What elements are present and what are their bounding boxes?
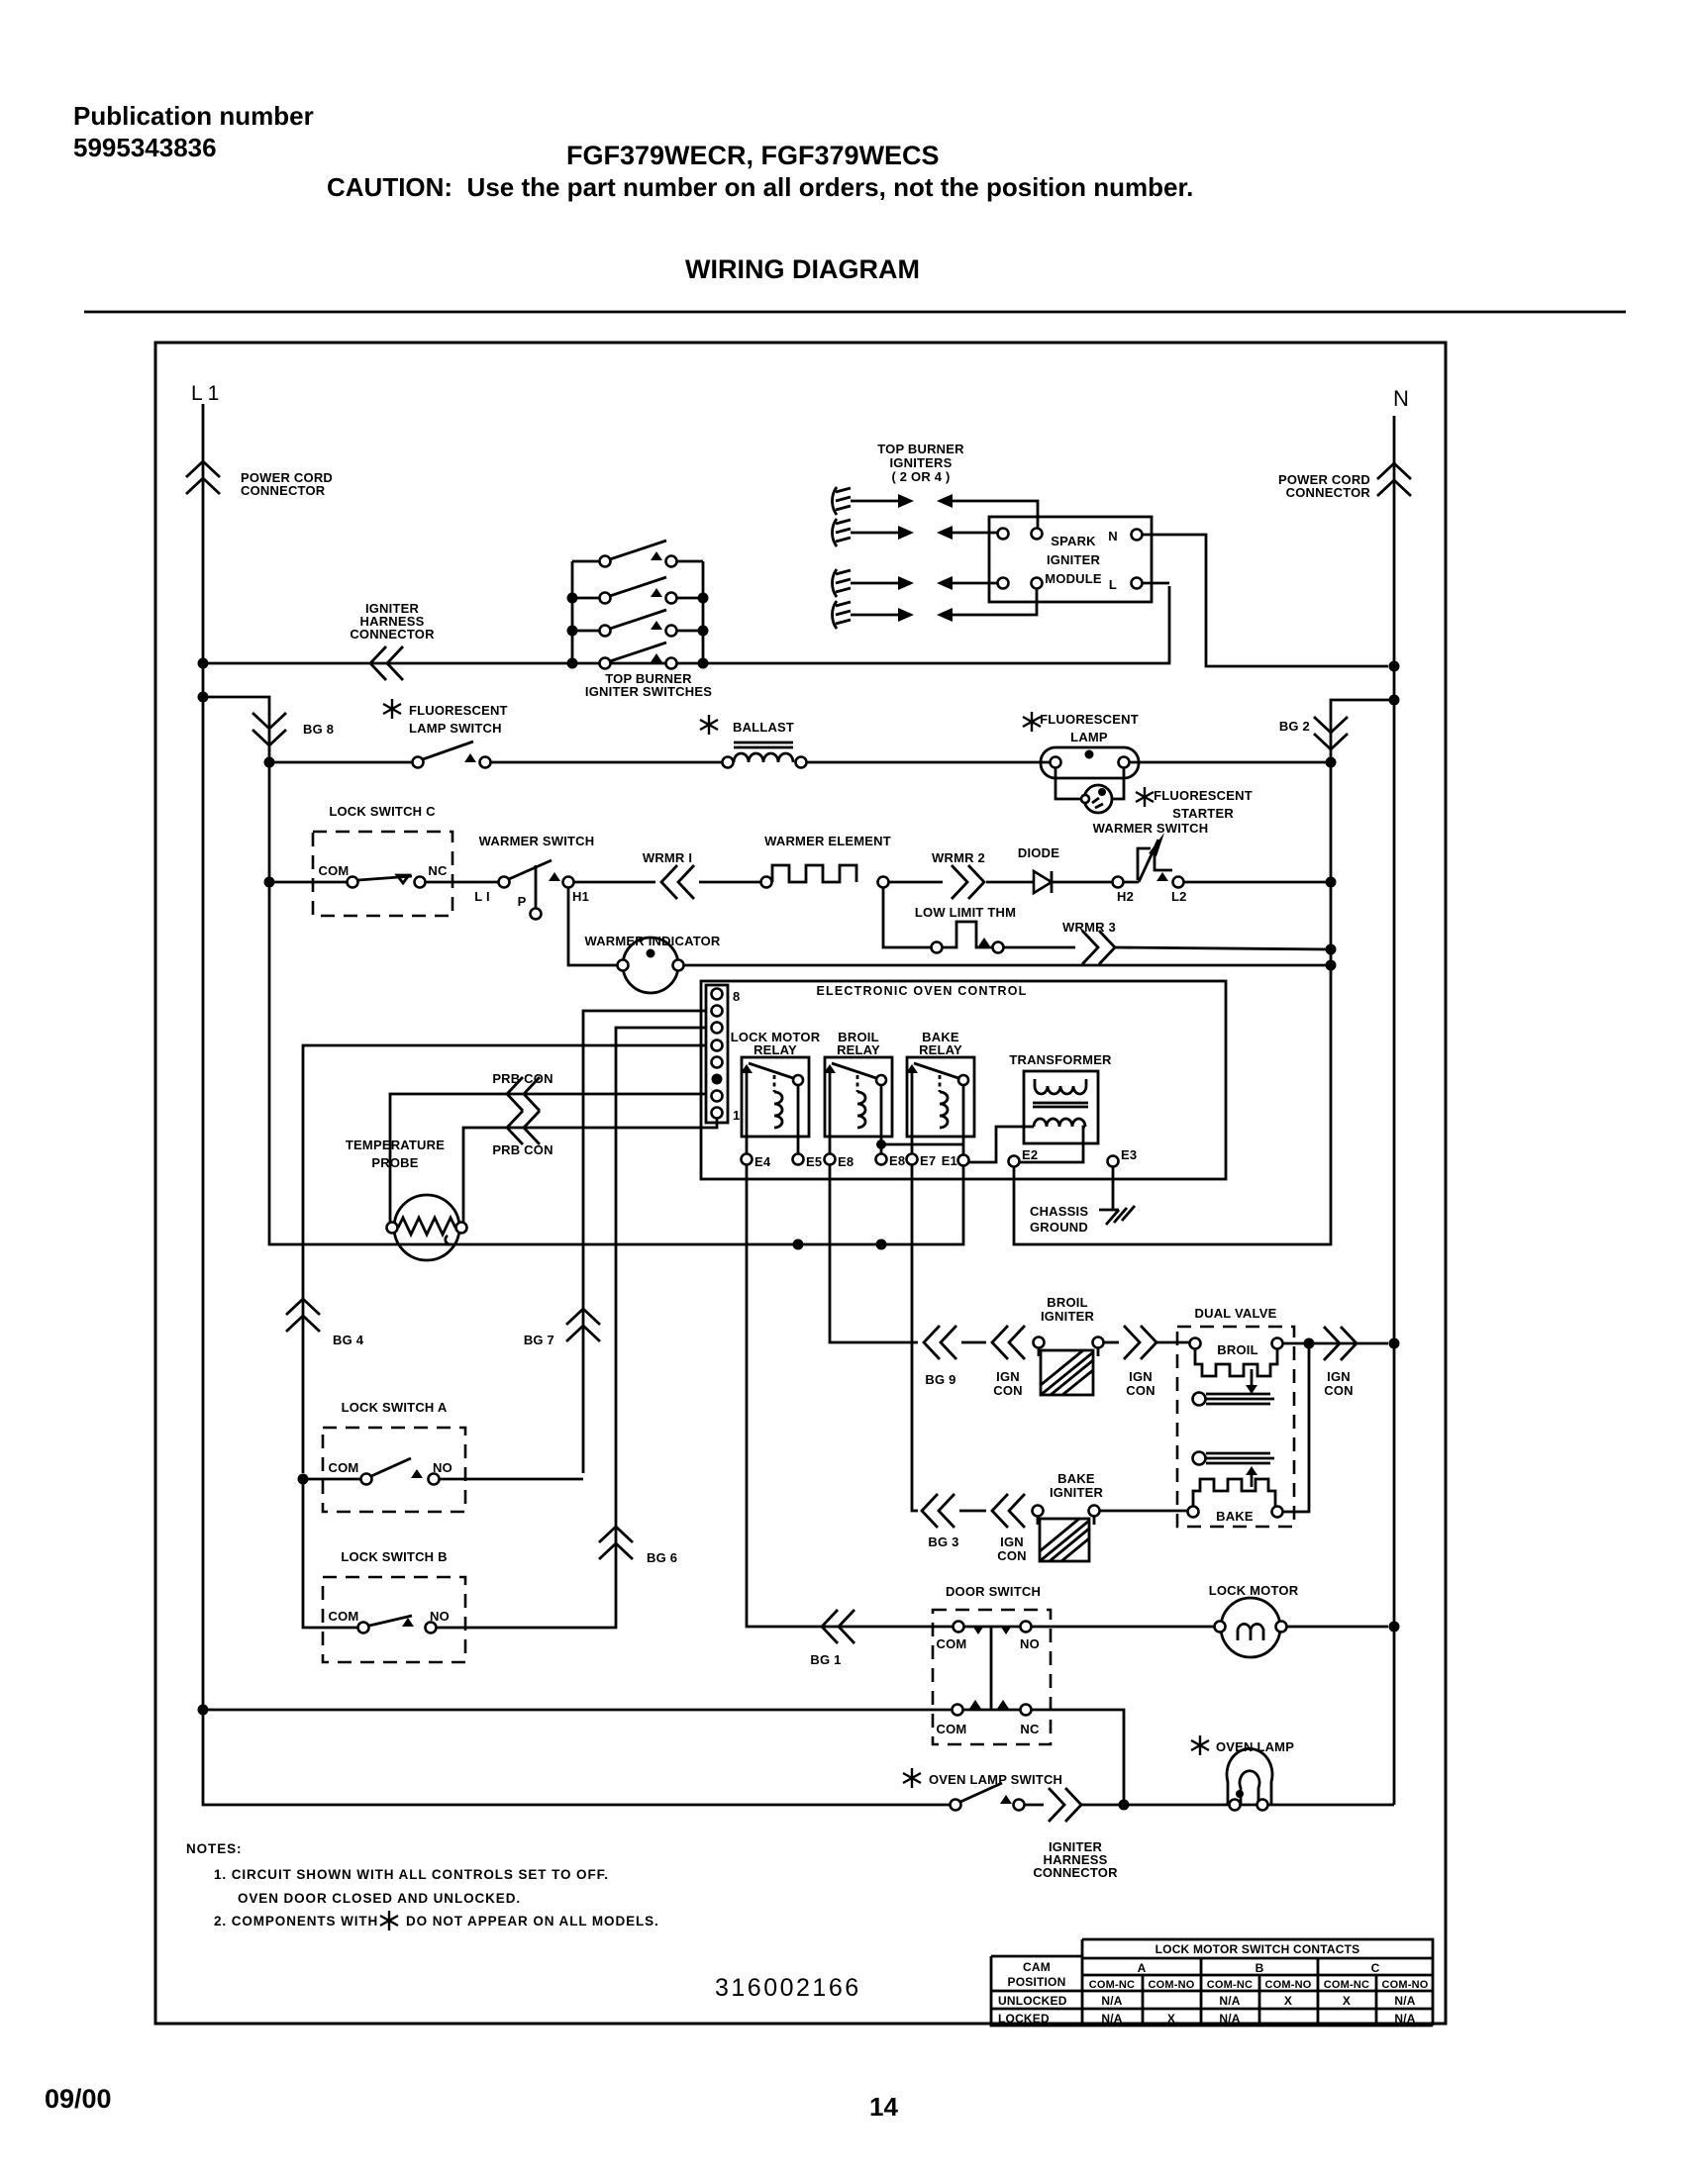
svg-text:WRMR 2: WRMR 2 xyxy=(932,850,985,865)
svg-text:E5: E5 xyxy=(806,1154,822,1169)
svg-text:CAM: CAM xyxy=(1023,1960,1051,1974)
svg-text:BAKE: BAKE xyxy=(1057,1471,1095,1486)
svg-text:1: 1 xyxy=(733,1108,740,1123)
svg-text:N/A: N/A xyxy=(1394,1994,1415,2008)
svg-text:COM: COM xyxy=(937,1722,967,1736)
svg-text:NOTES:: NOTES: xyxy=(186,1841,242,1856)
svg-text:BG 1: BG 1 xyxy=(810,1652,841,1667)
svg-text:IGN: IGN xyxy=(1129,1369,1153,1384)
svg-text:BG 7: BG 7 xyxy=(524,1333,554,1347)
svg-text:X: X xyxy=(1284,1994,1292,2008)
svg-text:09/00: 09/00 xyxy=(45,2084,112,2114)
svg-text:PROBE: PROBE xyxy=(371,1155,418,1170)
svg-text:COM-NO: COM-NO xyxy=(1264,1979,1311,1991)
svg-text:PRB CON: PRB CON xyxy=(492,1142,553,1157)
svg-text:LOCK MOTOR: LOCK MOTOR xyxy=(1209,1583,1299,1598)
svg-text:B: B xyxy=(1256,1961,1264,1975)
svg-text:COM-NC: COM-NC xyxy=(1207,1979,1253,1991)
svg-text:DO NOT APPEAR ON ALL MODELS.: DO NOT APPEAR ON ALL MODELS. xyxy=(406,1914,659,1929)
svg-text:CON: CON xyxy=(1324,1383,1354,1398)
svg-text:H1: H1 xyxy=(572,889,589,904)
svg-text:H2: H2 xyxy=(1117,889,1134,904)
svg-text:BG 9: BG 9 xyxy=(925,1372,955,1387)
svg-text:LAMP: LAMP xyxy=(1070,730,1108,744)
svg-text:E2: E2 xyxy=(1022,1147,1038,1162)
svg-text:CON: CON xyxy=(993,1383,1023,1398)
svg-text:WARMER SWITCH: WARMER SWITCH xyxy=(479,834,595,848)
svg-text:WARMER ELEMENT: WARMER ELEMENT xyxy=(764,834,891,848)
svg-text:BG 2: BG 2 xyxy=(1279,719,1310,734)
svg-text:A: A xyxy=(1138,1961,1147,1975)
svg-text:14: 14 xyxy=(869,2092,898,2122)
svg-text:DUAL VALVE: DUAL VALVE xyxy=(1195,1306,1277,1321)
svg-text:BROIL: BROIL xyxy=(1047,1295,1087,1310)
svg-text:N: N xyxy=(1108,529,1118,544)
svg-text:DOOR SWITCH: DOOR SWITCH xyxy=(946,1584,1041,1599)
svg-text:IGNITERS: IGNITERS xyxy=(890,455,953,470)
svg-text:IGNITER: IGNITER xyxy=(1050,1485,1104,1500)
svg-text:IGN: IGN xyxy=(1327,1369,1351,1384)
svg-text:CONNECTOR: CONNECTOR xyxy=(1286,485,1371,500)
svg-text:BG 3: BG 3 xyxy=(928,1534,958,1549)
svg-text:C: C xyxy=(1371,1961,1380,1975)
svg-text:N/A: N/A xyxy=(1101,1994,1122,2008)
svg-text:FLUORESCENT: FLUORESCENT xyxy=(1154,788,1253,803)
svg-text:LOCK SWITCH C: LOCK SWITCH C xyxy=(329,804,436,819)
svg-text:E8: E8 xyxy=(838,1154,854,1169)
svg-text:8: 8 xyxy=(733,989,740,1004)
svg-text:IGNITER SWITCHES: IGNITER SWITCHES xyxy=(585,684,712,699)
svg-text:CON: CON xyxy=(1126,1383,1155,1398)
svg-text:NC: NC xyxy=(428,863,448,878)
svg-text:PRB CON: PRB CON xyxy=(492,1071,553,1086)
svg-text:TOP BURNER: TOP BURNER xyxy=(877,442,964,456)
svg-text:E1: E1 xyxy=(942,1153,957,1168)
svg-text:BG 4: BG 4 xyxy=(333,1333,364,1347)
svg-text:COM: COM xyxy=(329,1609,359,1624)
svg-text:N/A: N/A xyxy=(1101,2012,1122,2026)
svg-text:WARMER INDICATOR: WARMER INDICATOR xyxy=(584,934,720,948)
svg-text:CONNECTOR: CONNECTOR xyxy=(1033,1865,1118,1880)
svg-text:COM-NC: COM-NC xyxy=(1089,1979,1135,1991)
svg-text:IGN: IGN xyxy=(996,1369,1020,1384)
svg-text:COM-NO: COM-NO xyxy=(1381,1979,1428,1991)
svg-text:BROIL: BROIL xyxy=(1217,1342,1257,1357)
svg-text:FLUORESCENT: FLUORESCENT xyxy=(1040,712,1139,727)
svg-text:( 2 OR 4 ): ( 2 OR 4 ) xyxy=(891,469,950,484)
svg-text:N/A: N/A xyxy=(1219,1994,1240,2008)
svg-text:CHASSIS: CHASSIS xyxy=(1030,1204,1088,1219)
svg-text:COM-NO: COM-NO xyxy=(1148,1979,1194,1991)
svg-text:RELAY: RELAY xyxy=(754,1042,797,1057)
svg-text:COM: COM xyxy=(329,1460,359,1475)
svg-text:TEMPERATURE: TEMPERATURE xyxy=(346,1138,445,1152)
svg-text:X: X xyxy=(1343,1994,1351,2008)
svg-text:RELAY: RELAY xyxy=(919,1042,962,1057)
svg-text:COM: COM xyxy=(937,1636,967,1651)
svg-text:OVEN LAMP SWITCH: OVEN LAMP SWITCH xyxy=(929,1772,1062,1787)
svg-text:E7: E7 xyxy=(920,1153,936,1168)
svg-text:CON: CON xyxy=(997,1548,1027,1563)
svg-text:CONNECTOR: CONNECTOR xyxy=(241,483,326,498)
svg-text:WIRING DIAGRAM: WIRING DIAGRAM xyxy=(685,254,920,284)
svg-text:E3: E3 xyxy=(1121,1147,1137,1162)
svg-text:NO: NO xyxy=(433,1460,452,1475)
svg-text:NC: NC xyxy=(1020,1722,1040,1736)
svg-text:E4: E4 xyxy=(754,1154,771,1169)
svg-text:Publication number: Publication number xyxy=(73,101,314,131)
svg-text:WARMER SWITCH: WARMER SWITCH xyxy=(1093,821,1209,836)
svg-text:ELECTRONIC OVEN CONTROL: ELECTRONIC OVEN CONTROL xyxy=(816,984,1027,998)
svg-text:BG 6: BG 6 xyxy=(647,1550,677,1565)
svg-text:WRMR 3: WRMR 3 xyxy=(1062,920,1116,935)
svg-text:IGN: IGN xyxy=(1000,1534,1024,1549)
svg-text:NO: NO xyxy=(1020,1636,1040,1651)
svg-text:LOCK SWITCH B: LOCK SWITCH B xyxy=(341,1549,447,1564)
svg-text:CAUTION: Use the part number: CAUTION: Use the part number on all orde… xyxy=(327,172,1193,202)
svg-text:FLUORESCENT: FLUORESCENT xyxy=(409,703,508,718)
svg-text:STARTER: STARTER xyxy=(1172,806,1234,821)
svg-text:GROUND: GROUND xyxy=(1030,1220,1088,1235)
svg-text:UNLOCKED: UNLOCKED xyxy=(998,1994,1067,2008)
svg-text:P: P xyxy=(518,894,527,909)
svg-text:N: N xyxy=(1393,386,1409,411)
svg-text:N/A: N/A xyxy=(1394,2012,1415,2026)
svg-text:CONNECTOR: CONNECTOR xyxy=(350,627,435,642)
svg-text:E8: E8 xyxy=(889,1153,905,1168)
svg-text:1. CIRCUIT SHOWN WITH ALL CONT: 1. CIRCUIT SHOWN WITH ALL CONTROLS SET T… xyxy=(214,1867,609,1882)
svg-text:L: L xyxy=(1109,577,1117,592)
svg-text:LOW LIMIT THM: LOW LIMIT THM xyxy=(915,905,1016,920)
svg-text:N/A: N/A xyxy=(1219,2012,1240,2026)
svg-text:IGNITER: IGNITER xyxy=(1047,552,1101,567)
svg-text:LAMP SWITCH: LAMP SWITCH xyxy=(409,721,502,736)
svg-text:LOCKED: LOCKED xyxy=(998,2012,1050,2026)
svg-text:BG 8: BG 8 xyxy=(303,722,334,737)
svg-text:MODULE: MODULE xyxy=(1045,571,1102,586)
svg-text:COM: COM xyxy=(319,863,350,878)
svg-text:POSITION: POSITION xyxy=(1008,1975,1066,1989)
svg-text:OVEN DOOR CLOSED AND UNLOCKED.: OVEN DOOR CLOSED AND UNLOCKED. xyxy=(238,1891,521,1906)
svg-text:OVEN LAMP: OVEN LAMP xyxy=(1216,1739,1294,1754)
svg-text:BAKE: BAKE xyxy=(1216,1509,1254,1524)
svg-text:5995343836: 5995343836 xyxy=(73,133,217,162)
svg-text:SPARK: SPARK xyxy=(1051,534,1096,548)
svg-text:L I: L I xyxy=(474,889,490,904)
svg-text:LOCK SWITCH A: LOCK SWITCH A xyxy=(342,1400,448,1415)
svg-text:RELAY: RELAY xyxy=(837,1042,880,1057)
svg-text:2. COMPONENTS WITH: 2. COMPONENTS WITH xyxy=(214,1914,378,1929)
svg-text:IGNITER: IGNITER xyxy=(1041,1309,1095,1324)
svg-text:TRANSFORMER: TRANSFORMER xyxy=(1009,1052,1112,1067)
svg-text:LOCK MOTOR SWITCH CONTACTS: LOCK MOTOR SWITCH CONTACTS xyxy=(1155,1942,1360,1956)
svg-text:L2: L2 xyxy=(1171,889,1187,904)
svg-text:316002166: 316002166 xyxy=(715,1974,861,2002)
svg-text:COM-NC: COM-NC xyxy=(1324,1979,1369,1991)
svg-text:X: X xyxy=(1167,2012,1175,2026)
svg-text:NO: NO xyxy=(430,1609,450,1624)
svg-text:BALLAST: BALLAST xyxy=(733,720,794,735)
svg-text:WRMR I: WRMR I xyxy=(643,850,692,865)
svg-text:FGF379WECR, FGF379WECS: FGF379WECR, FGF379WECS xyxy=(566,141,940,170)
svg-text:DIODE: DIODE xyxy=(1018,845,1059,860)
svg-text:L1: L1 xyxy=(191,382,224,405)
